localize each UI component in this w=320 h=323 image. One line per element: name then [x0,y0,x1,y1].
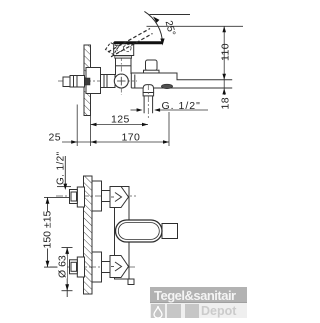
valve body column [116,58,132,75]
dim 125 [91,124,149,126]
bottom union nut (left) [70,257,85,277]
svg-text:25: 25 [49,131,61,143]
bottom connector [102,262,111,273]
logo Tegel&sanitair Depot [150,287,247,318]
svg-text:110: 110 [220,43,232,61]
handle lever (front) [116,220,178,242]
bottom inlet centerline [50,266,136,268]
dark wall fitting [85,78,91,85]
dim 150 +/-15 [44,197,70,267]
bottom stub [128,279,134,285]
swing arc 25deg [144,11,162,44]
dim 170 + 25 [62,105,169,147]
lever (solid, horizontal) [114,41,163,44]
diverter knob [144,60,160,73]
dim diameter 63 [62,248,73,298]
arc arrowhead bottom [160,39,164,46]
spout outlet (underside ellipse) [161,84,172,88]
svg-text:25°: 25° [163,20,177,37]
shower outlet stub [143,85,154,114]
svg-text:150 ±15: 150 ±15 [42,210,54,248]
inlet centerline [58,80,137,82]
dashed hub outline (rotated position) [106,43,119,55]
spout upper box [131,73,232,88]
stub centerline [147,84,149,118]
lever hub [114,43,134,56]
top union nut (left) [70,187,85,207]
svg-text:G. 1/2": G. 1/2" [56,151,67,185]
dim 110 / 18 (right) [223,26,225,95]
connector between escutcheon and valve [101,75,116,88]
reference line at arc end [150,14,191,16]
svg-text:G. 1/2": G. 1/2" [162,100,201,112]
svg-text:18: 18 [220,97,232,109]
hub inner dashed arcs [116,44,131,51]
body column [115,187,130,280]
top inlet centerline [56,195,136,197]
top escutcheon [92,181,102,211]
extension line at lever max height [147,25,244,27]
S-union stub [63,77,70,87]
wall escutcheon plate [86,68,101,94]
arc arrowhead top [153,17,159,23]
top connector [102,191,111,202]
wall section (hatched) [84,45,91,116]
temperature knob (circle with centre cross) [114,74,128,88]
S-union nut [70,76,85,88]
svg-text:170: 170 [122,131,141,143]
dim G 1/2 (side view) [131,109,209,111]
chrome ring band [115,56,132,59]
bottom cap nut (pentagon) [110,256,129,278]
svg-text:125: 125 [111,114,130,126]
lever rotated 25 deg (dashed) [108,29,153,57]
wall section (hatched) [84,176,93,294]
label 25deg (rotated) [162,19,177,37]
bottom escutcheon [92,252,102,282]
svg-text:Ø 63: Ø 63 [57,255,69,278]
top cap nut (pentagon) [110,187,129,208]
